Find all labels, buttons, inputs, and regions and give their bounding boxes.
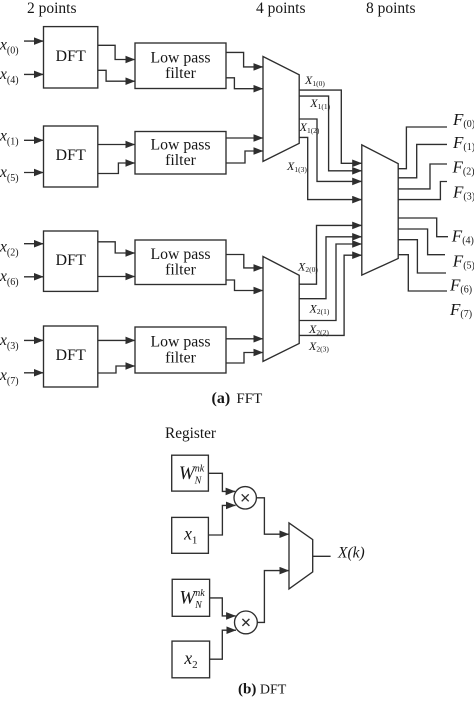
register block x1 — [172, 517, 209, 553]
wire output F(0) — [398, 127, 447, 169]
svg-text:Low pass: Low pass — [150, 246, 210, 263]
wire input x(7) into DFT4 — [24, 372, 44, 374]
svg-text:Register: Register — [165, 425, 216, 442]
wire X2(0) from U2 to U3 — [299, 225, 362, 284]
mux U2 4-point lower — [263, 257, 299, 362]
svg-text:WnkN: WnkN — [179, 588, 205, 611]
svg-text:X(k): X(k) — [337, 545, 365, 562]
svg-text:DFT: DFT — [56, 147, 86, 164]
mux U3 8-point — [362, 145, 398, 275]
wire DFT4 out2 to LPF4 — [98, 366, 135, 373]
svg-text:filter: filter — [165, 262, 196, 279]
block low-pass filter 1 — [135, 43, 226, 89]
wire DFT1 out2 to LPF1 — [98, 70, 135, 81]
wire X1(0) from U1 to U3 — [299, 90, 362, 163]
block low-pass filter 3 — [135, 240, 226, 285]
wire input x(6) into DFT3 — [24, 276, 44, 278]
svg-text:(b) DFT: (b) DFT — [238, 682, 287, 698]
wire X2(3) from U2 to U3 — [299, 255, 362, 335]
wire x1 to multiplier M1 — [208, 505, 235, 535]
svg-text:2 points: 2 points — [27, 0, 77, 17]
wire DFT2 out1 to LPF2 — [98, 144, 135, 146]
multiplier M2 — [235, 611, 258, 634]
wire LPF1 out2 to 4-point mux — [226, 78, 263, 89]
svg-text:Low pass: Low pass — [150, 136, 210, 153]
wire LPF3 out1 to 4-point mux — [226, 255, 263, 268]
wire output X(k) — [313, 555, 331, 557]
wire LPF1 out1 to 4-point mux — [226, 52, 263, 67]
wire input x(0) into DFT1 — [24, 40, 44, 42]
svg-text:WnkN: WnkN — [179, 463, 205, 486]
wire input x(4) into DFT1 — [24, 73, 44, 75]
wire DFT3 out2 to LPF3 — [98, 276, 135, 278]
svg-text:8 points: 8 points — [366, 0, 416, 17]
wire output F(2) — [398, 164, 447, 189]
wire LPF4 out2 to 4-point mux — [226, 353, 263, 364]
wire DFT2 out2 to LPF2 — [98, 163, 135, 174]
wire LPF4 out1 to 4-point mux — [226, 338, 263, 340]
wire M2 to mux U4 — [257, 571, 289, 623]
svg-text:DFT: DFT — [56, 48, 86, 65]
wire X1(1) from U1 to U3 — [299, 96, 362, 171]
wire DFT1 out1 to LPF1 — [98, 45, 135, 59]
block DFT1 — [44, 27, 98, 88]
wire x2 to multiplier M2 — [210, 630, 236, 659]
block DFT4 — [44, 326, 98, 387]
svg-text:DFT: DFT — [56, 347, 86, 364]
wire output F(3) — [398, 182, 447, 200]
block DFT2 — [44, 126, 98, 187]
wire output F(4) — [398, 218, 448, 237]
block DFT3 — [44, 231, 98, 291]
register block x2 — [172, 641, 210, 678]
wire LPF2 out2 to 4-point mux — [226, 151, 263, 163]
svg-text:Low pass: Low pass — [150, 334, 210, 351]
wire input x(5) into DFT2 — [24, 172, 44, 174]
svg-text:Low pass: Low pass — [150, 49, 210, 66]
svg-text:filter: filter — [165, 152, 196, 169]
svg-text:DFT: DFT — [56, 252, 86, 269]
wire input x(1) into DFT2 — [24, 139, 44, 141]
wire output F(6) — [398, 240, 446, 273]
wire M1 to mux U4 — [256, 498, 289, 534]
block low-pass filter 2 — [135, 132, 226, 175]
wire LPF3 out2 to 4-point mux — [226, 280, 263, 291]
wire X1(3) from U1 to U3 — [299, 137, 362, 199]
block low-pass filter 4 — [135, 327, 226, 373]
svg-text:filter: filter — [165, 349, 196, 366]
svg-text:4 points: 4 points — [256, 0, 306, 17]
svg-text:filter: filter — [165, 65, 196, 82]
wire LPF2 out1 to 4-point mux — [226, 137, 263, 139]
wire output F(1) — [398, 144, 447, 177]
wire input x(2) into DFT3 — [24, 243, 44, 245]
wire input x(3) into DFT4 — [24, 339, 44, 341]
wire W lower to multiplier M2 — [210, 598, 236, 616]
wire X1(2) from U1 to U3 — [299, 119, 362, 181]
wire DFT3 out1 to LPF3 — [98, 242, 135, 253]
wire output F(5) — [398, 229, 445, 255]
svg-text:(a) FFT: (a) FFT — [212, 390, 263, 407]
register block W_N^nk lower — [172, 579, 209, 616]
mux U4 output combiner — [289, 523, 313, 589]
wire output F(7) — [398, 255, 447, 291]
wire X2(2) from U2 to U3 — [299, 244, 362, 321]
wire DFT4 out1 to LPF4 — [98, 339, 135, 341]
mux U1 4-point upper — [263, 57, 299, 162]
wire X2(1) from U2 to U3 — [299, 237, 362, 299]
wire W upper to multiplier M1 — [208, 473, 235, 491]
multiplier M1 — [234, 487, 256, 509]
register block W_N^nk upper — [172, 455, 209, 491]
